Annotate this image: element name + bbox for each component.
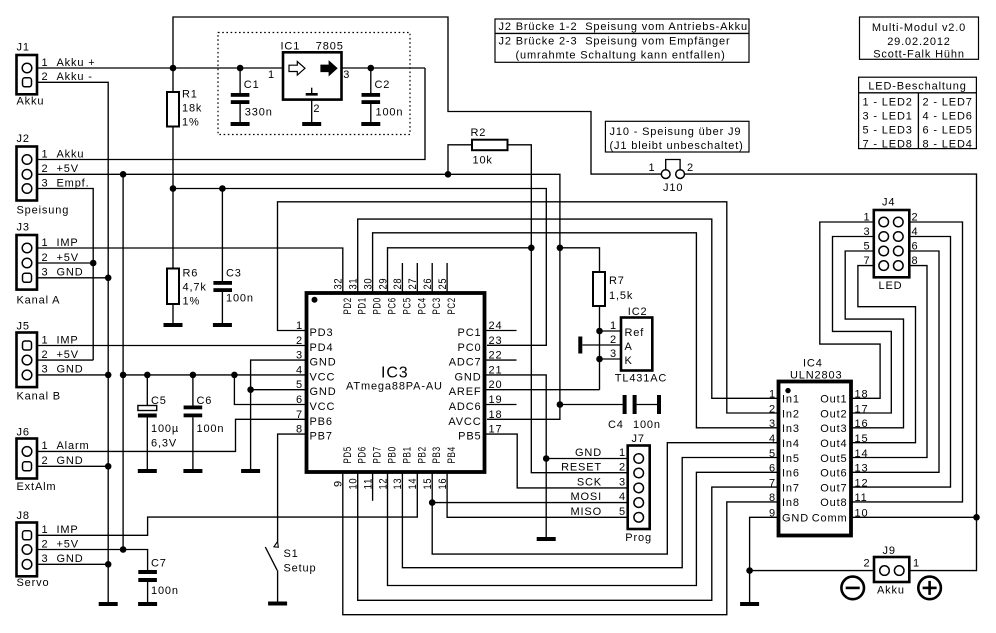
resistor R2 10k <box>471 127 508 167</box>
junction node GND at J6 pin2 <box>105 463 112 470</box>
ground bar IC4 GND <box>740 602 759 606</box>
wire IC1 pin3 output <box>342 67 426 69</box>
IC4 left pin names In1-In8 GND <box>782 394 809 525</box>
ground bar C6 <box>183 469 202 473</box>
wire J6 GND to GND rail <box>37 465 108 467</box>
junction node divider C3 <box>219 185 226 192</box>
svg-text:K: K <box>625 355 633 367</box>
svg-text:330n: 330n <box>245 107 273 119</box>
svg-text:1: 1 <box>42 57 49 69</box>
svg-text:7 - LED8: 7 - LED8 <box>863 138 913 150</box>
IC3 right pin names <box>448 327 481 443</box>
wire Akku+ top route to J10 pin1 <box>173 17 661 174</box>
svg-text:3: 3 <box>42 267 49 279</box>
svg-text:PB7: PB7 <box>310 431 333 443</box>
svg-text:1: 1 <box>913 558 920 570</box>
connector J4 LED <box>864 197 919 293</box>
svg-text:PD1: PD1 <box>357 297 369 314</box>
svg-text:1: 1 <box>42 440 49 452</box>
svg-text:VCC: VCC <box>310 401 336 413</box>
svg-text:J10: J10 <box>663 182 683 194</box>
svg-text:PD2: PD2 <box>342 297 354 314</box>
svg-text:GND: GND <box>57 267 84 279</box>
svg-text:AVCC: AVCC <box>448 416 481 428</box>
IC3 left pin numbers 1-8 <box>296 320 303 436</box>
capacitor C3 100n <box>213 189 253 324</box>
svg-text:Out7: Out7 <box>820 482 847 494</box>
svg-text:PC4: PC4 <box>416 297 428 314</box>
capacitor C5 100u electrolytic <box>138 375 179 469</box>
svg-text:6 - LED5: 6 - LED5 <box>923 124 973 136</box>
op-amp section: microcontroller IC3 ATmega88PA-AU <box>307 293 485 472</box>
svg-text:Scott-Falk Hühn: Scott-Falk Hühn <box>873 49 965 61</box>
wire J4 pin1 to ULN Out1 <box>820 222 880 398</box>
svg-text:Comm: Comm <box>812 513 848 525</box>
ground bar C4 <box>657 395 661 414</box>
svg-text:2: 2 <box>610 334 617 346</box>
svg-text:Speisung: Speisung <box>17 205 70 217</box>
title box Multi-Modul v2.0 <box>860 17 979 61</box>
svg-text:18: 18 <box>489 409 503 421</box>
svg-text:Multi-Modul v2.0: Multi-Modul v2.0 <box>872 22 966 34</box>
svg-text:2: 2 <box>42 163 49 175</box>
junction node C6 top <box>190 372 197 379</box>
svg-text:29.02.2012: 29.02.2012 <box>887 36 951 48</box>
wire J3 GND to GND rail <box>37 277 108 279</box>
svg-text:3: 3 <box>42 177 49 189</box>
svg-text:In2: In2 <box>782 408 800 420</box>
wire J5 IMP to PD4 <box>37 345 307 347</box>
svg-text:100n: 100n <box>633 419 661 431</box>
svg-text:J6: J6 <box>17 427 30 439</box>
svg-text:IC3: IC3 <box>381 365 409 382</box>
connector J3 Kanal A <box>17 222 84 307</box>
svg-text:GND: GND <box>57 553 84 565</box>
svg-text:C3: C3 <box>226 268 242 280</box>
wire PD3 pin1 to ULN In2 <box>278 202 780 413</box>
svg-text:Out6: Out6 <box>820 468 847 480</box>
svg-text:5: 5 <box>619 506 626 518</box>
connector J2 Speisung <box>17 133 90 217</box>
svg-text:GND: GND <box>575 447 602 459</box>
svg-text:C7: C7 <box>151 558 167 570</box>
svg-text:Out2: Out2 <box>820 408 847 420</box>
svg-text:J10 - Speisung über J9: J10 - Speisung über J9 <box>610 126 742 138</box>
svg-text:2: 2 <box>42 252 49 264</box>
wire R2 right to reset line and J7 RESET <box>508 145 628 473</box>
svg-text:PB3: PB3 <box>431 446 443 463</box>
wire J6 Alarm to PB6 <box>37 419 307 451</box>
svg-text:In7: In7 <box>782 482 800 494</box>
ground bar IC3 GND pins <box>241 469 260 473</box>
junction node IC2 K <box>596 356 603 363</box>
svg-text:1: 1 <box>268 69 275 81</box>
svg-text:In8: In8 <box>782 497 800 509</box>
wire Akku- from J1 pin2 down GND rail to ground <box>37 82 108 602</box>
svg-text:J2 Brücke 2-3 Speisung vom Em: J2 Brücke 2-3 Speisung vom Empfänger <box>499 36 731 48</box>
wire stub PD7 pin11 <box>372 472 374 501</box>
svg-text:GND: GND <box>782 513 809 525</box>
svg-text:GND: GND <box>57 364 84 376</box>
wire J5 GND to GND rail <box>37 374 108 376</box>
svg-text:PD5: PD5 <box>342 446 354 463</box>
svg-text:C1: C1 <box>244 79 260 91</box>
svg-text:GND: GND <box>57 455 84 467</box>
svg-text:R1: R1 <box>182 89 198 101</box>
svg-text:14: 14 <box>407 478 419 490</box>
svg-text:3: 3 <box>42 553 49 565</box>
connector J6 ExtAlm <box>17 427 90 494</box>
wire +5V rail from J2 pin2 to AVCC <box>37 174 560 419</box>
svg-text:PC6: PC6 <box>387 297 399 314</box>
ground bar R6 <box>164 323 183 327</box>
svg-text:MISO: MISO <box>570 506 602 518</box>
svg-text:1%: 1% <box>182 117 200 129</box>
ground bar IC2 A <box>578 337 582 354</box>
svg-text:+5V: +5V <box>57 538 79 550</box>
svg-text:1%: 1% <box>183 296 201 308</box>
svg-text:1: 1 <box>42 524 49 536</box>
svg-text:MOSI: MOSI <box>570 491 602 503</box>
svg-text:RESET: RESET <box>561 462 602 474</box>
svg-text:4: 4 <box>769 433 776 445</box>
svg-text:2: 2 <box>687 162 694 174</box>
wire AREF pin20 to IC2 <box>485 389 600 391</box>
svg-text:AREF: AREF <box>449 386 482 398</box>
svg-text:100n: 100n <box>376 107 404 119</box>
svg-text:1 - LED2: 1 - LED2 <box>863 96 913 108</box>
svg-text:LED-Beschaltung: LED-Beschaltung <box>868 81 966 93</box>
wire PD5 pin9 to ULN In8 <box>343 472 780 615</box>
svg-text:100n: 100n <box>197 423 225 435</box>
svg-text:3 - LED1: 3 - LED1 <box>863 110 913 122</box>
wire IC4 GND pin9 to ground and J9 pin2 node <box>750 517 779 602</box>
wire J5 +5V to Empf rail <box>37 359 93 361</box>
svg-text:1: 1 <box>619 447 626 459</box>
svg-text:Akku +: Akku + <box>57 57 96 69</box>
junction node C1 top <box>237 65 244 72</box>
LED-Beschaltung table <box>859 77 977 150</box>
wire PB1 pin13 to ULN In5 <box>402 458 779 568</box>
ground bar C5 <box>138 469 157 473</box>
junction node Comm at rail <box>973 514 980 521</box>
resistor R7 1,5k <box>593 272 633 306</box>
svg-text:R2: R2 <box>471 127 487 139</box>
svg-text:+5V: +5V <box>57 252 79 264</box>
switch S1 Setup <box>265 434 316 601</box>
capacitor C4 100n <box>560 395 661 431</box>
svg-text:8: 8 <box>769 492 776 504</box>
svg-text:Setup: Setup <box>284 563 317 575</box>
svg-text:8 - LED4: 8 - LED4 <box>923 138 973 150</box>
svg-text:PB2: PB2 <box>416 446 428 463</box>
svg-text:LED: LED <box>879 280 903 292</box>
svg-text:IC4: IC4 <box>803 358 823 370</box>
wire Akku+ from J1 pin1 to IC1 input <box>37 67 283 69</box>
svg-text:Prog: Prog <box>625 532 652 544</box>
svg-text:Akku: Akku <box>57 148 85 160</box>
svg-text:4,7k: 4,7k <box>183 282 207 294</box>
resistor R6 4,7k <box>167 189 207 324</box>
connector J1 Akku <box>17 42 96 108</box>
svg-text:PC1: PC1 <box>458 327 482 339</box>
junction node +5V at J8 pin2 <box>120 546 127 553</box>
capacitor C1 330n <box>231 68 273 122</box>
svg-text:PD6: PD6 <box>357 446 369 463</box>
svg-text:J8: J8 <box>17 510 30 522</box>
connector J8 Servo <box>17 510 84 589</box>
svg-text:2 - LED7: 2 - LED7 <box>923 96 973 108</box>
wire J4 pin3 to ULN Out2 <box>833 237 892 414</box>
junction node GND pin5 branch <box>247 386 254 393</box>
svg-text:J5: J5 <box>17 321 30 333</box>
wire Empf. from J2 pin3 down to J5 pin2 <box>37 189 93 361</box>
ground bar C7 <box>138 602 157 606</box>
jumper J10 <box>649 160 694 195</box>
svg-text:2: 2 <box>42 455 49 467</box>
wire stub PC1 pin24 <box>485 330 517 332</box>
svg-text:IMP: IMP <box>57 524 79 536</box>
svg-text:3: 3 <box>42 364 49 376</box>
wire R2 left to +5V rail <box>448 145 472 175</box>
svg-text:GND: GND <box>455 371 482 383</box>
svg-text:J2: J2 <box>17 133 30 145</box>
wire PB4 pin16 to J7 MISO <box>447 472 628 517</box>
svg-text:Akku: Akku <box>17 96 45 108</box>
svg-text:4 - LED6: 4 - LED6 <box>923 110 973 122</box>
svg-text:SCK: SCK <box>577 476 602 488</box>
svg-text:1: 1 <box>42 148 49 160</box>
wire J8 GND to GND rail <box>37 563 108 565</box>
IC3 right pin numbers 24-17 <box>489 320 503 436</box>
svg-text:J7: J7 <box>632 433 645 445</box>
wire GND pins 3 and 5 to ground <box>251 360 307 469</box>
ground bar IC1 <box>302 122 321 126</box>
wire J4 pin8 to ULN Out5 <box>851 266 927 458</box>
ground bar C1 <box>231 122 250 126</box>
svg-text:1: 1 <box>42 334 49 346</box>
svg-text:Kanal A: Kanal A <box>17 295 61 307</box>
svg-text:GND: GND <box>310 386 337 398</box>
ground bar J7 GND net <box>537 537 556 541</box>
minus terminal symbol <box>841 577 864 600</box>
svg-text:3: 3 <box>769 418 776 430</box>
ground bar of GND rail <box>99 602 118 606</box>
svg-text:PD7: PD7 <box>372 446 384 463</box>
svg-text:Servo: Servo <box>17 577 50 589</box>
info box J10 note <box>605 121 749 152</box>
svg-text:C6: C6 <box>197 395 213 407</box>
wire PB3 pin15 to J7 MOSI and ULN In4 <box>432 443 779 554</box>
svg-text:TL431AC: TL431AC <box>615 373 667 385</box>
junction node GND at J3 pin3 <box>105 275 112 282</box>
wire J4 pin4 to ULN Out7 <box>851 237 951 488</box>
svg-text:C2: C2 <box>375 79 391 91</box>
junction node Empf at J3 pin2 <box>90 260 97 267</box>
svg-text:J1: J1 <box>17 42 30 54</box>
svg-text:6,3V: 6,3V <box>151 438 177 450</box>
svg-text:PD3: PD3 <box>310 327 334 339</box>
svg-text:1: 1 <box>769 389 776 401</box>
svg-text:In4: In4 <box>782 438 800 450</box>
svg-text:Kanal B: Kanal B <box>17 391 61 403</box>
svg-text:C5: C5 <box>151 395 167 407</box>
svg-text:IMP: IMP <box>57 237 79 249</box>
svg-text:Out3: Out3 <box>820 423 847 435</box>
svg-text:PD4: PD4 <box>310 342 334 354</box>
svg-text:IMP: IMP <box>57 334 79 346</box>
wire stub PC2 pin25 <box>446 263 448 293</box>
svg-text:32: 32 <box>333 278 345 290</box>
svg-text:VCC: VCC <box>310 371 336 383</box>
connector J5 Kanal B <box>17 321 84 403</box>
ground bar C3 <box>213 323 232 327</box>
svg-text:Out8: Out8 <box>820 497 847 509</box>
wire J10 pin2 to Comm rail and J9 pin1 <box>685 174 977 570</box>
wire J4 pin6 to ULN Out6 <box>851 251 939 472</box>
junction node IC2 Ref <box>596 328 603 335</box>
svg-text:6: 6 <box>769 463 776 475</box>
wire ULN Comm pin10 to rail <box>851 516 977 518</box>
svg-text:2: 2 <box>864 558 871 570</box>
IC4 left pin numbers 1-9 <box>769 389 776 520</box>
IC4 right pin numbers 18-10 <box>855 389 869 520</box>
svg-text:IC1: IC1 <box>281 41 301 53</box>
wire GND pin21 to J7 GND and ground <box>485 375 628 537</box>
svg-text:2: 2 <box>42 538 49 550</box>
wire J8 IMP to PB2 <box>37 473 417 535</box>
svg-text:2: 2 <box>313 103 320 115</box>
wire J2 pin1 from IC1 output <box>37 68 425 160</box>
wire stub ADC6 pin19 <box>485 404 517 406</box>
svg-text:PB1: PB1 <box>401 446 413 463</box>
svg-text:3: 3 <box>610 348 617 360</box>
info box J2 Bruecke notes <box>495 19 749 62</box>
svg-text:PC5: PC5 <box>401 297 413 314</box>
svg-text:Out1: Out1 <box>820 394 847 406</box>
svg-text:PD0: PD0 <box>372 297 384 314</box>
junction node C5 top <box>144 372 151 379</box>
svg-text:PB0: PB0 <box>387 446 399 463</box>
IC3 left pin names <box>310 327 337 443</box>
svg-text:10k: 10k <box>473 155 493 167</box>
shunt regulator IC2 TL431AC <box>610 306 667 385</box>
wire +5V vertical branch <box>122 174 124 549</box>
svg-text:ExtAlm: ExtAlm <box>17 481 57 493</box>
wire IC2 A pin2 to ground <box>583 344 622 346</box>
svg-text:2: 2 <box>42 71 49 83</box>
svg-text:+5V: +5V <box>57 163 79 175</box>
wire +5V branch to VCC pins 4 and 6 <box>123 375 306 405</box>
wire stub PC4 pin27 <box>416 263 418 293</box>
svg-text:1,5k: 1,5k <box>609 290 633 302</box>
svg-text:1: 1 <box>610 320 617 332</box>
wire J4 pin2 to ULN Out8 <box>851 222 963 502</box>
junction node VCC pin6 branch <box>231 372 238 379</box>
svg-text:Alarm: Alarm <box>57 440 90 452</box>
svg-text:Akku: Akku <box>877 585 905 597</box>
capacitor C7 100n <box>138 558 179 603</box>
wire stub PC5 pin28 <box>401 263 403 293</box>
wire stub ADC7 pin22 <box>485 359 517 361</box>
svg-text:J4: J4 <box>882 197 895 209</box>
IC4 right pin names Out1-Out8 Comm <box>812 394 848 525</box>
svg-text:C4: C4 <box>608 419 624 431</box>
svg-text:In3: In3 <box>782 423 800 435</box>
wire R7 bottom to IC2 Ref and K, down to AREF line <box>600 306 622 390</box>
svg-text:1: 1 <box>42 237 49 249</box>
driver IC4 ULN2803 <box>779 358 852 536</box>
svg-text:2: 2 <box>769 403 776 415</box>
junction node C2 top <box>368 65 375 72</box>
svg-text:Empf.: Empf. <box>57 177 90 189</box>
svg-text:Akku -: Akku - <box>57 71 93 83</box>
svg-text:PB6: PB6 <box>310 416 333 428</box>
svg-text:(umrahmte Schaltung kann entfa: (umrahmte Schaltung kann entfallen) <box>516 50 726 62</box>
regulator section dotted outline <box>218 33 410 135</box>
svg-text:S1: S1 <box>284 548 299 560</box>
svg-text:23: 23 <box>489 335 503 347</box>
svg-text:5 - LED3: 5 - LED3 <box>863 124 913 136</box>
svg-text:R6: R6 <box>183 268 199 280</box>
wire J9 pin2 to IC4 GND node <box>750 570 874 572</box>
svg-text:Out5: Out5 <box>820 453 847 465</box>
svg-text:In6: In6 <box>782 468 800 480</box>
svg-text:A: A <box>625 341 633 353</box>
svg-text:R7: R7 <box>609 275 625 287</box>
svg-text:100n: 100n <box>151 585 179 597</box>
svg-text:2: 2 <box>42 349 49 361</box>
junction node GND at J8 pin3 <box>105 561 112 568</box>
IC3 bottom pin numbers rotated 9-16 <box>333 478 449 490</box>
svg-text:PB4: PB4 <box>446 446 458 463</box>
junction node +5V at R2 <box>445 171 452 178</box>
svg-text:2: 2 <box>619 462 626 474</box>
svg-text:7: 7 <box>296 409 303 421</box>
junction node +5V at vertical branch <box>120 171 127 178</box>
svg-text:3: 3 <box>343 69 350 81</box>
IC3 bottom pin names rotated <box>342 446 458 463</box>
junction node Akku+ at R1 top <box>170 65 177 72</box>
wire PD6 pin10 to ULN In7 <box>358 472 780 600</box>
IC3 top pin numbers rotated 32-25 <box>333 278 449 290</box>
capacitor C6 100n <box>184 375 225 469</box>
wire divider node R1/R6 to PC0 <box>173 189 546 346</box>
svg-text:Ref: Ref <box>625 327 645 339</box>
junction node GND at J5 pin3 <box>105 372 112 379</box>
svg-text:ADC6: ADC6 <box>449 401 482 413</box>
svg-text:Out4: Out4 <box>820 438 847 450</box>
svg-text:3: 3 <box>619 476 626 488</box>
svg-text:PC3: PC3 <box>431 297 443 314</box>
wire J4 pin5 to ULN Out3 <box>845 251 903 428</box>
wire PC6 reset pin29 to reset net <box>388 248 532 293</box>
junction node IC4 GND at J9 pin2 <box>746 567 753 574</box>
svg-text:PC0: PC0 <box>458 342 482 354</box>
svg-text:100n: 100n <box>226 293 254 305</box>
svg-text:5: 5 <box>769 448 776 460</box>
junction node GND at J7 pin1 <box>543 455 550 462</box>
svg-text:PC2: PC2 <box>446 297 458 314</box>
junction node PB3 at MOSI <box>429 499 436 506</box>
svg-text:In1: In1 <box>782 394 800 406</box>
connector J9 Akku <box>864 545 920 597</box>
junction node reset line at R2 <box>528 245 535 252</box>
junction node +5V at reset row <box>557 245 564 252</box>
svg-text:7: 7 <box>769 477 776 489</box>
wire +5V to R7 <box>560 248 600 272</box>
svg-text:PB5: PB5 <box>458 431 481 443</box>
